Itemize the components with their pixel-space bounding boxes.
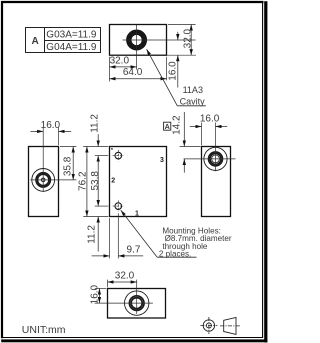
dimension 11.2 bottom line xyxy=(97,217,99,252)
svg-text:16.0: 16.0 xyxy=(168,61,179,81)
svg-text:32.0: 32.0 xyxy=(110,55,130,66)
svg-text:1: 1 xyxy=(135,210,139,217)
svg-text:35.8: 35.8 xyxy=(62,156,73,176)
bottom view ext left up xyxy=(107,280,109,288)
hole 1 circle (bottom) xyxy=(115,203,122,210)
dimension 53.8 line xyxy=(97,156,99,207)
front view corner dot xyxy=(111,148,113,150)
hole 1 centermark horizontal xyxy=(113,205,124,207)
sheet border top xyxy=(1,1,264,3)
left view centerline vertical xyxy=(42,128,44,192)
svg-text:9.7: 9.7 xyxy=(127,245,141,256)
bottom view outline xyxy=(108,289,166,319)
left view circle ring inner xyxy=(38,174,49,185)
top view ext line bottom-right xyxy=(167,54,197,56)
right view circle outer xyxy=(204,147,227,170)
svg-text:3: 3 xyxy=(160,157,164,164)
dimension 16.0 right arrow upper xyxy=(177,32,179,40)
dimension 11.2 top line xyxy=(97,134,99,146)
datum feature A box xyxy=(164,122,171,130)
sheet border bottom (inner thin) xyxy=(3,337,264,339)
top view hole ring outer xyxy=(127,31,146,50)
right view ext left corner up xyxy=(201,123,203,146)
right view centerline horizontal xyxy=(184,158,236,160)
hole 2 circle (top) xyxy=(115,152,122,159)
dimension 16.0 right-view arrow left xyxy=(190,126,202,128)
projection symbol circle outer xyxy=(203,320,214,331)
dimension 16.0 bottom-view line xyxy=(98,289,100,304)
sheet border left xyxy=(1,1,3,338)
sheet shadow bottom xyxy=(1,339,267,342)
projection symbol cone outline xyxy=(224,317,236,334)
svg-text:Cavity: Cavity xyxy=(180,97,206,107)
svg-text:16.0: 16.0 xyxy=(89,284,100,304)
top view ext line left below xyxy=(109,57,111,82)
svg-text:14.2: 14.2 xyxy=(172,115,183,135)
svg-text:64.0: 64.0 xyxy=(123,67,143,78)
right view circle inner xyxy=(212,155,220,163)
left view circle ring outer xyxy=(36,173,50,187)
top view hole ring middle xyxy=(129,32,145,48)
ext line hole1 center down xyxy=(117,213,119,258)
dimension 32.0 top-view line xyxy=(110,66,137,68)
top view hole centerline vertical xyxy=(136,25,138,70)
dimension 16.0 right-view arrow right xyxy=(216,126,228,128)
svg-text:76.2: 76.2 xyxy=(78,171,89,191)
svg-text:11A3: 11A3 xyxy=(183,85,203,95)
bottom view ext top edge left xyxy=(95,288,106,290)
svg-text:32.0: 32.0 xyxy=(182,28,193,48)
bottom view circle ring inner xyxy=(131,298,142,309)
svg-text:G04A=11.9: G04A=11.9 xyxy=(46,42,97,53)
bottom view centerline horizontal xyxy=(95,302,153,304)
dimension 32.0 right line xyxy=(190,25,192,56)
sheet shadow right xyxy=(264,1,267,342)
right view circle ring inner xyxy=(210,153,221,164)
svg-text:UNIT:mm: UNIT:mm xyxy=(22,324,66,336)
svg-text:G03A=11.9: G03A=11.9 xyxy=(46,30,97,41)
dimension 16.0 right arrow lower xyxy=(177,55,179,87)
front view ext bottom edge xyxy=(83,216,108,218)
dimension 16.0 left-view arrow right xyxy=(59,130,72,132)
top view ext line top-right xyxy=(168,24,196,26)
front view ext top edge xyxy=(83,146,108,148)
front view ext hole2 centerline xyxy=(95,155,109,157)
left view ext right corner up xyxy=(58,128,60,146)
svg-text:11.2: 11.2 xyxy=(87,225,98,244)
left view circle inner xyxy=(41,178,45,182)
svg-text:A: A xyxy=(31,36,38,47)
right view circle ring outer xyxy=(209,152,223,166)
svg-text:53.8: 53.8 xyxy=(90,171,101,191)
svg-text:A: A xyxy=(165,122,170,131)
bottom view circle outer xyxy=(125,291,149,315)
dimension 9.7 left arrow xyxy=(92,255,110,257)
right view centerline vertical xyxy=(215,123,217,172)
top view outline xyxy=(110,25,167,56)
svg-text:16.0: 16.0 xyxy=(41,120,61,131)
dimension 32.0 bottom-view line xyxy=(108,281,137,283)
svg-text:32.0: 32.0 xyxy=(115,271,135,282)
left view outline xyxy=(29,147,59,217)
leader underline mounting holes xyxy=(157,256,197,258)
dimension 14.2 arrow lower xyxy=(183,159,185,173)
bottom view circle ring outer xyxy=(129,296,144,311)
projection symbol circle centerline horizontal xyxy=(200,325,217,327)
svg-text:11.2: 11.2 xyxy=(90,114,101,133)
hole 2 centermark horizontal xyxy=(113,155,124,157)
projection symbol cone centerline xyxy=(220,325,240,327)
projection symbol circle inner xyxy=(206,323,211,328)
dimension 35.8 line xyxy=(72,147,74,180)
left view ext top edge right xyxy=(60,146,76,148)
revision table divider vertical xyxy=(44,28,46,53)
left view circle outer xyxy=(32,169,55,192)
dimension 9.7 right arrow xyxy=(118,255,143,257)
dimension 16.0 left-view arrow left xyxy=(30,130,43,132)
projection symbol circle centerline vertical xyxy=(208,317,210,334)
top view ext line right below xyxy=(166,57,168,80)
left view centerline horizontal xyxy=(30,179,76,181)
svg-text:2: 2 xyxy=(111,177,115,184)
leader mounting holes xyxy=(121,210,157,257)
svg-text:2 places.: 2 places. xyxy=(159,250,191,259)
top view hole ring inner xyxy=(131,34,143,46)
dimension 76.2 line xyxy=(86,147,88,217)
dimension 64.0 top-view line xyxy=(110,78,167,80)
sheet border right (inner thin) xyxy=(262,3,264,338)
hole 1 centermark vertical xyxy=(117,200,119,211)
right view outline xyxy=(202,147,231,217)
dimension 14.2 arrow upper xyxy=(183,112,185,147)
bottom view centerline vertical xyxy=(136,280,138,314)
hole 2 centermark vertical xyxy=(117,150,119,161)
front view ext hole1 centerline xyxy=(95,205,109,207)
svg-text:16.0: 16.0 xyxy=(200,113,220,124)
leader underline 11A3 cavity xyxy=(177,105,206,107)
front view outline xyxy=(110,147,167,217)
ext line plate left edge down xyxy=(109,218,111,258)
right view ext top edge left xyxy=(180,146,201,148)
revision table divider horizontal xyxy=(45,40,101,42)
top view hole centerline horizontal xyxy=(123,39,196,41)
leader line 11A3 cavity xyxy=(147,49,178,106)
revision table frame xyxy=(26,28,101,53)
